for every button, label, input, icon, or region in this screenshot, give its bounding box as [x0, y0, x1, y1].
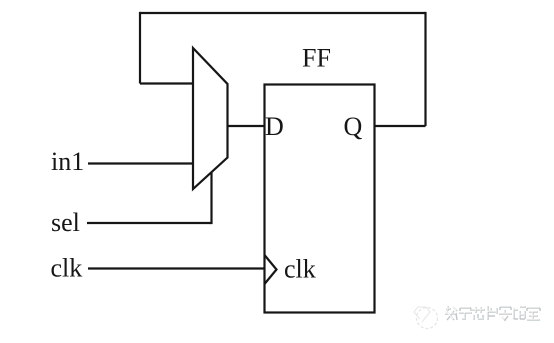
svg-text:clk: clk	[51, 254, 83, 283]
svg-text:Q: Q	[344, 112, 363, 141]
wire feedback right vertical	[424, 12, 426, 126]
svg-text:sel: sel	[51, 208, 80, 237]
wire Q output	[375, 125, 426, 127]
wire feedback into mux input 0	[140, 82, 193, 84]
flip-flop U2 body	[265, 85, 375, 313]
svg-text:clk: clk	[284, 255, 316, 284]
wire feedback left vertical	[139, 12, 141, 84]
wire sel horizontal	[87, 222, 212, 224]
wire feedback top horizontal (Q to mux loop)	[140, 12, 426, 14]
multiplexer U1	[193, 48, 228, 189]
wire sel vertical to mux select	[210, 172, 212, 224]
svg-text:FF: FF	[302, 44, 331, 73]
watermark text (stylized hanzi, embossed)	[444, 305, 540, 321]
clock edge-trigger symbol on FF	[265, 255, 277, 284]
svg-text:in1: in1	[51, 147, 84, 176]
svg-text:D: D	[265, 112, 284, 141]
wire clk to FF	[88, 267, 265, 269]
watermark logo circle	[414, 307, 438, 329]
wire in1 to mux	[88, 162, 193, 164]
wire mux output to D	[228, 125, 265, 127]
